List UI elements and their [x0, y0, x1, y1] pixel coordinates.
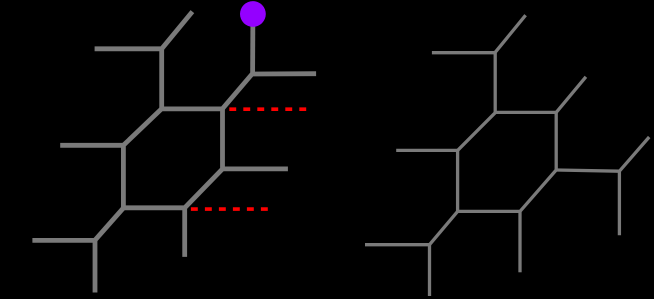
bond ring A to isopropyl CH	[159, 49, 164, 109]
bond ring E to lower isopropyl CH	[95, 208, 124, 240]
lower-left isopropyl horizontal arm	[32, 238, 94, 243]
methyl right at C	[223, 166, 288, 171]
CH2 methyl right	[252, 71, 316, 76]
methyl down at D	[182, 208, 187, 257]
bond CH2 up to atom	[250, 16, 255, 75]
lower isopropyl horizontal arm	[365, 243, 430, 246]
purple atom ball	[240, 1, 266, 27]
lower isopropyl down arm	[428, 245, 431, 296]
red dashed line upper	[229, 107, 306, 111]
right molecule (thin strokes)	[365, 15, 649, 296]
top-left isopropyl arms	[95, 12, 193, 49]
red dashed line lower	[191, 207, 268, 211]
right ring	[458, 112, 557, 211]
lower-left isopropyl down arm	[93, 240, 98, 292]
bond ring C' to right isopropyl CH	[556, 170, 619, 171]
methyl up-right at B'	[556, 77, 586, 113]
top isopropyl arms	[432, 15, 526, 53]
bond ring A' to isopropyl CH	[494, 53, 497, 113]
methyl left at F	[60, 143, 123, 148]
left molecule (thick strokes)	[32, 12, 316, 293]
bond ring B to CH2	[223, 74, 253, 109]
bond ring E' to lower isopropyl CH	[430, 211, 458, 244]
left ring	[123, 109, 222, 208]
methyl left at F'	[396, 149, 457, 152]
right isopropyl arms	[619, 137, 649, 235]
methyl down at D'	[518, 211, 521, 272]
